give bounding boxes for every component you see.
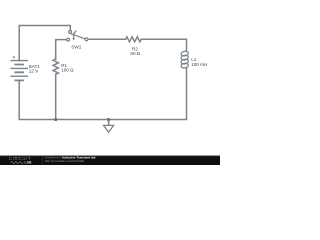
svg-text:100 Ω: 100 Ω [61,68,74,73]
svg-text:LAB: LAB [25,161,33,165]
svg-text:http://circuitlab.com/c2c34d8: http://circuitlab.com/c2c34d8 [45,159,84,163]
svg-text:100 mH: 100 mH [191,62,207,67]
svg-text:12 V: 12 V [29,69,39,74]
svg-text:50 Ω: 50 Ω [130,51,140,56]
svg-text:SW1: SW1 [71,44,81,49]
